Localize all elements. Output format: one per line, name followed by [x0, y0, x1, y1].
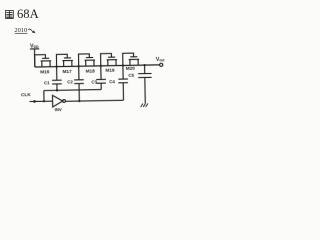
- node N3: [100, 65, 102, 67]
- ground: [141, 103, 148, 107]
- arrow on CLK wire: [34, 100, 38, 103]
- svg-text:M16: M16: [40, 69, 50, 74]
- node CLK tap junction: [43, 100, 45, 102]
- transistor M16: [35, 55, 52, 75]
- figure title glyph 圖: [6, 11, 14, 19]
- transistor M17: [56, 54, 73, 74]
- node C2 junction on INV rail: [78, 100, 80, 102]
- svg-text:Vout: Vout: [156, 57, 166, 63]
- transistor M20: [123, 53, 140, 71]
- wire INV output rail: [66, 100, 124, 101]
- svg-text:C5: C5: [128, 73, 134, 78]
- wire CLK tap vertical: [43, 91, 45, 102]
- svg-text:C1: C1: [44, 80, 50, 85]
- Vout terminal: [156, 57, 166, 67]
- svg-text:M18: M18: [86, 68, 96, 73]
- node N4: [122, 64, 124, 66]
- svg-text:M19: M19: [105, 68, 115, 73]
- svg-text:C4: C4: [109, 79, 115, 84]
- node N5: [143, 64, 145, 66]
- svg-text:M20: M20: [126, 66, 136, 71]
- svg-text:INV: INV: [55, 107, 62, 112]
- transistor M18: [78, 54, 95, 74]
- svg-text:C2: C2: [67, 80, 73, 85]
- inverter INV: [53, 95, 66, 112]
- svg-text:CLK: CLK: [21, 92, 31, 97]
- node N2: [78, 65, 80, 67]
- capacitor C1: [44, 67, 62, 91]
- wire CLK input: [30, 100, 53, 102]
- wire VDD lead: [33, 49, 35, 67]
- node N1: [55, 65, 57, 67]
- VDD supply label: [30, 43, 39, 49]
- node C1 junction on CLK rail: [56, 89, 58, 91]
- capacitor C2: [67, 66, 84, 101]
- svg-text:M17: M17: [63, 69, 73, 74]
- capacitor C4: [109, 65, 128, 100]
- wire CLK rail: [44, 90, 101, 91]
- svg-text:68A: 68A: [17, 7, 39, 21]
- reference numeral 2010 with leader arrow: [14, 27, 35, 34]
- capacitor C5 (output): [128, 65, 152, 104]
- wire top rail: [35, 65, 160, 67]
- capacitor C3: [91, 66, 106, 90]
- transistor M19: [101, 53, 118, 73]
- svg-text:C3: C3: [91, 79, 97, 84]
